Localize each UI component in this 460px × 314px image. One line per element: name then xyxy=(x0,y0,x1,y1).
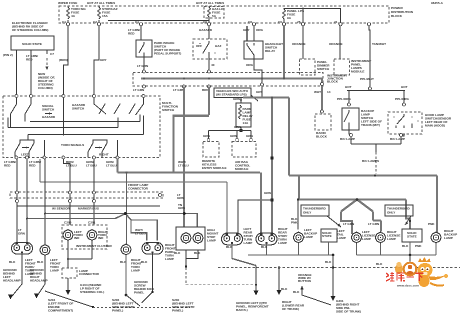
svg-text:STATE: STATE xyxy=(322,234,332,238)
svg-text:BLK: BLK xyxy=(402,244,409,248)
svg-text:98J55-A: 98J55-A xyxy=(431,1,444,5)
svg-text:LAMP: LAMP xyxy=(244,241,253,245)
svg-text:ONLY: ONLY xyxy=(387,211,396,215)
svg-text:BLK: BLK xyxy=(293,290,300,294)
svg-text:(PIN 2): (PIN 2) xyxy=(3,53,13,57)
svg-text:TRANS (M/T): TRANS (M/T) xyxy=(361,123,380,127)
svg-text:SWITCH: SWITCH xyxy=(162,108,175,112)
svg-text:BLK: BLK xyxy=(194,251,201,255)
svg-text:LT GRN: LT GRN xyxy=(368,222,380,226)
svg-text:BLK: BLK xyxy=(376,262,383,266)
svg-text:PNK: PNK xyxy=(291,221,298,225)
svg-text:PNK: PNK xyxy=(415,244,422,248)
svg-text:LT BLU: LT BLU xyxy=(86,164,98,168)
svg-text:BLK: BLK xyxy=(141,260,148,264)
svg-text:BLK: BLK xyxy=(261,245,268,249)
svg-text:15A: 15A xyxy=(102,14,108,18)
svg-text:BLK: BLK xyxy=(226,245,233,249)
svg-text:BLK: BLK xyxy=(281,287,288,291)
svg-text:WIPER FUSE: WIPER FUSE xyxy=(58,1,77,5)
svg-text:BAR B.): BAR B.) xyxy=(236,308,248,312)
svg-text:LT BLU: LT BLU xyxy=(106,164,118,168)
svg-text:GRN: GRN xyxy=(203,134,211,138)
svg-text:SOLID STATE: SOLID STATE xyxy=(22,42,42,46)
svg-text:GRY: GRY xyxy=(100,58,108,62)
svg-text:ENTRY MODULE: ENTRY MODULE xyxy=(202,166,227,170)
svg-text:LAMP: LAMP xyxy=(165,257,174,261)
svg-text:HAZARD: HAZARD xyxy=(42,115,56,119)
svg-text:MODULE: MODULE xyxy=(235,167,248,171)
svg-text:25: 25 xyxy=(297,20,301,24)
svg-text:COLUMN): COLUMN) xyxy=(38,86,53,90)
svg-text:B/U LAMP: B/U LAMP xyxy=(390,137,405,141)
svg-text:B/U LAMPS: B/U LAMPS xyxy=(362,159,379,163)
svg-text:MARKER BUS: MARKER BUS xyxy=(78,207,99,211)
svg-text:OFF: OFF xyxy=(196,44,202,48)
svg-text:GRY: GRY xyxy=(243,28,251,32)
svg-text:LAMP: LAMP xyxy=(387,237,396,241)
svg-text:IND: IND xyxy=(74,236,80,240)
svg-text:SIDE OF TRUNK): SIDE OF TRUNK) xyxy=(336,310,361,314)
svg-text:GRN: GRN xyxy=(234,125,242,129)
svg-text:RELAY: RELAY xyxy=(265,49,276,53)
svg-text:MODULE: MODULE xyxy=(351,70,364,74)
svg-text:RIGHT: RIGHT xyxy=(99,153,109,157)
svg-text:HOT: HOT xyxy=(345,85,352,89)
svg-text:LAMP: LAMP xyxy=(207,239,216,243)
svg-text:STATE: STATE xyxy=(407,235,417,239)
svg-text:IND: IND xyxy=(98,236,104,240)
svg-text:SWITCH: SWITCH xyxy=(42,108,55,112)
svg-text:PPL/ORG: PPL/ORG xyxy=(337,97,352,101)
svg-text:C8: C8 xyxy=(248,20,252,24)
svg-text:HOT AT ALL TIMES: HOT AT ALL TIMES xyxy=(87,1,115,5)
svg-text:COMPARTMENT): COMPARTMENT) xyxy=(48,309,73,313)
svg-text:BLK: BLK xyxy=(9,260,16,264)
svg-text:21: 21 xyxy=(334,20,338,24)
svg-text:GRN: GRN xyxy=(264,191,272,195)
svg-text:BLOCK: BLOCK xyxy=(316,135,328,139)
svg-text:LT BLU: LT BLU xyxy=(66,164,78,168)
svg-text:C2: C2 xyxy=(93,20,97,24)
svg-text:BLOCK: BLOCK xyxy=(391,14,403,18)
svg-text:BLOCK: BLOCK xyxy=(327,80,339,84)
svg-text:LAMP: LAMP xyxy=(50,269,59,273)
svg-text:ORANGE: ORANGE xyxy=(292,42,306,46)
svg-text:HOT AT ALL TIMES: HOT AT ALL TIMES xyxy=(196,1,224,5)
svg-text:ONLY: ONLY xyxy=(303,211,312,215)
svg-text:LAMP: LAMP xyxy=(131,269,140,273)
svg-text:PPL/WHT: PPL/WHT xyxy=(360,77,374,81)
svg-text:40: 40 xyxy=(211,63,215,67)
svg-text:GRY: GRY xyxy=(256,90,264,94)
svg-text:14A: 14A xyxy=(243,121,249,125)
svg-text:C1: C1 xyxy=(62,20,66,24)
svg-text:LT GRN: LT GRN xyxy=(343,222,355,226)
svg-text:C7: C7 xyxy=(50,52,54,56)
svg-text:GRN: GRN xyxy=(233,97,241,101)
svg-text:C6: C6 xyxy=(278,20,282,24)
svg-text:OF STEERING COLUMN): OF STEERING COLUMN) xyxy=(12,28,48,32)
svg-text:C6: C6 xyxy=(203,20,207,24)
svg-text:C200: C200 xyxy=(64,221,72,225)
svg-text:WHT: WHT xyxy=(314,90,321,94)
svg-text:PNK: PNK xyxy=(428,222,435,226)
svg-text:LAMP: LAMP xyxy=(278,241,287,245)
svg-text:PEDAL SUPPORT): PEDAL SUPPORT) xyxy=(154,52,181,56)
svg-text:CONNECTOR: CONNECTOR xyxy=(128,187,149,191)
svg-text:HAZARD: HAZARD xyxy=(199,28,213,32)
svg-text:HEADLAMP: HEADLAMP xyxy=(3,279,21,283)
svg-text:B/U LAMP: B/U LAMP xyxy=(340,137,355,141)
svg-text:BUTTON: BUTTON xyxy=(298,279,312,283)
svg-text:HEADLAMP: HEADLAMP xyxy=(30,279,48,283)
svg-text:GRN: GRN xyxy=(246,134,254,138)
svg-text:LT BLU: LT BLU xyxy=(178,164,190,168)
svg-text:RED: RED xyxy=(26,58,33,62)
svg-text:LAMP: LAMP xyxy=(362,237,371,241)
svg-text:PANEL): PANEL) xyxy=(172,309,183,313)
svg-text:HOT: HOT xyxy=(401,85,408,89)
svg-text:W/ SENSOR: W/ SENSOR xyxy=(52,207,70,211)
svg-text:SWITCH: SWITCH xyxy=(72,107,85,111)
svg-text:ORG: ORG xyxy=(256,28,264,32)
svg-text:PPL/ORG: PPL/ORG xyxy=(395,97,410,101)
svg-text:(W/ STANDARD LPS): (W/ STANDARD LPS) xyxy=(216,92,247,96)
svg-text:CONNECTOR: CONNECTOR xyxy=(79,272,100,276)
svg-text:GRN: GRN xyxy=(178,206,186,210)
svg-text:(BRN): (BRN) xyxy=(59,58,68,62)
svg-text:C1: C1 xyxy=(135,20,139,24)
svg-text:STEERING COL): STEERING COL) xyxy=(80,290,104,294)
svg-text:LAMP: LAMP xyxy=(444,236,453,240)
svg-text:14: 14 xyxy=(327,90,331,94)
svg-text:GRN: GRN xyxy=(230,134,238,138)
svg-text:INSTRUMENT CLUSTER: INSTRUMENT CLUSTER xyxy=(76,244,113,248)
svg-text:LT BLU: LT BLU xyxy=(135,232,147,236)
svg-text:PANEL): PANEL) xyxy=(112,309,123,313)
svg-text:www.dzsc.com: www.dzsc.com xyxy=(396,284,419,288)
svg-text:RED: RED xyxy=(29,164,36,168)
svg-text:GRN: GRN xyxy=(18,232,26,236)
svg-text:PANEL: PANEL xyxy=(134,291,144,295)
svg-text:ORANGE: ORANGE xyxy=(329,42,343,46)
svg-text:ORG: ORG xyxy=(246,63,254,67)
svg-text:TURN SIGNALS: TURN SIGNALS xyxy=(61,143,84,147)
svg-text:SWITCH: SWITCH xyxy=(317,67,330,71)
svg-text:OF TRUNK): OF TRUNK) xyxy=(282,307,299,311)
svg-text:C201: C201 xyxy=(88,221,96,225)
svg-text:RED: RED xyxy=(128,32,135,36)
svg-text:BLK: BLK xyxy=(174,251,181,255)
svg-text:LAMP: LAMP xyxy=(304,235,313,239)
svg-text:LT GRN: LT GRN xyxy=(133,88,145,92)
svg-text:LAMP: LAMP xyxy=(337,236,346,240)
svg-text:BLK: BLK xyxy=(37,260,44,264)
svg-text:TAN/WHT: TAN/WHT xyxy=(372,42,386,46)
svg-text:GRN: GRN xyxy=(177,196,185,200)
svg-text:LT GRN: LT GRN xyxy=(137,64,149,68)
svg-text:HAZ: HAZ xyxy=(215,44,221,48)
svg-text:RED: RED xyxy=(4,164,11,168)
svg-text:BLK: BLK xyxy=(325,260,332,264)
svg-text:MAIN (HOOD): MAIN (HOOD) xyxy=(425,124,445,128)
